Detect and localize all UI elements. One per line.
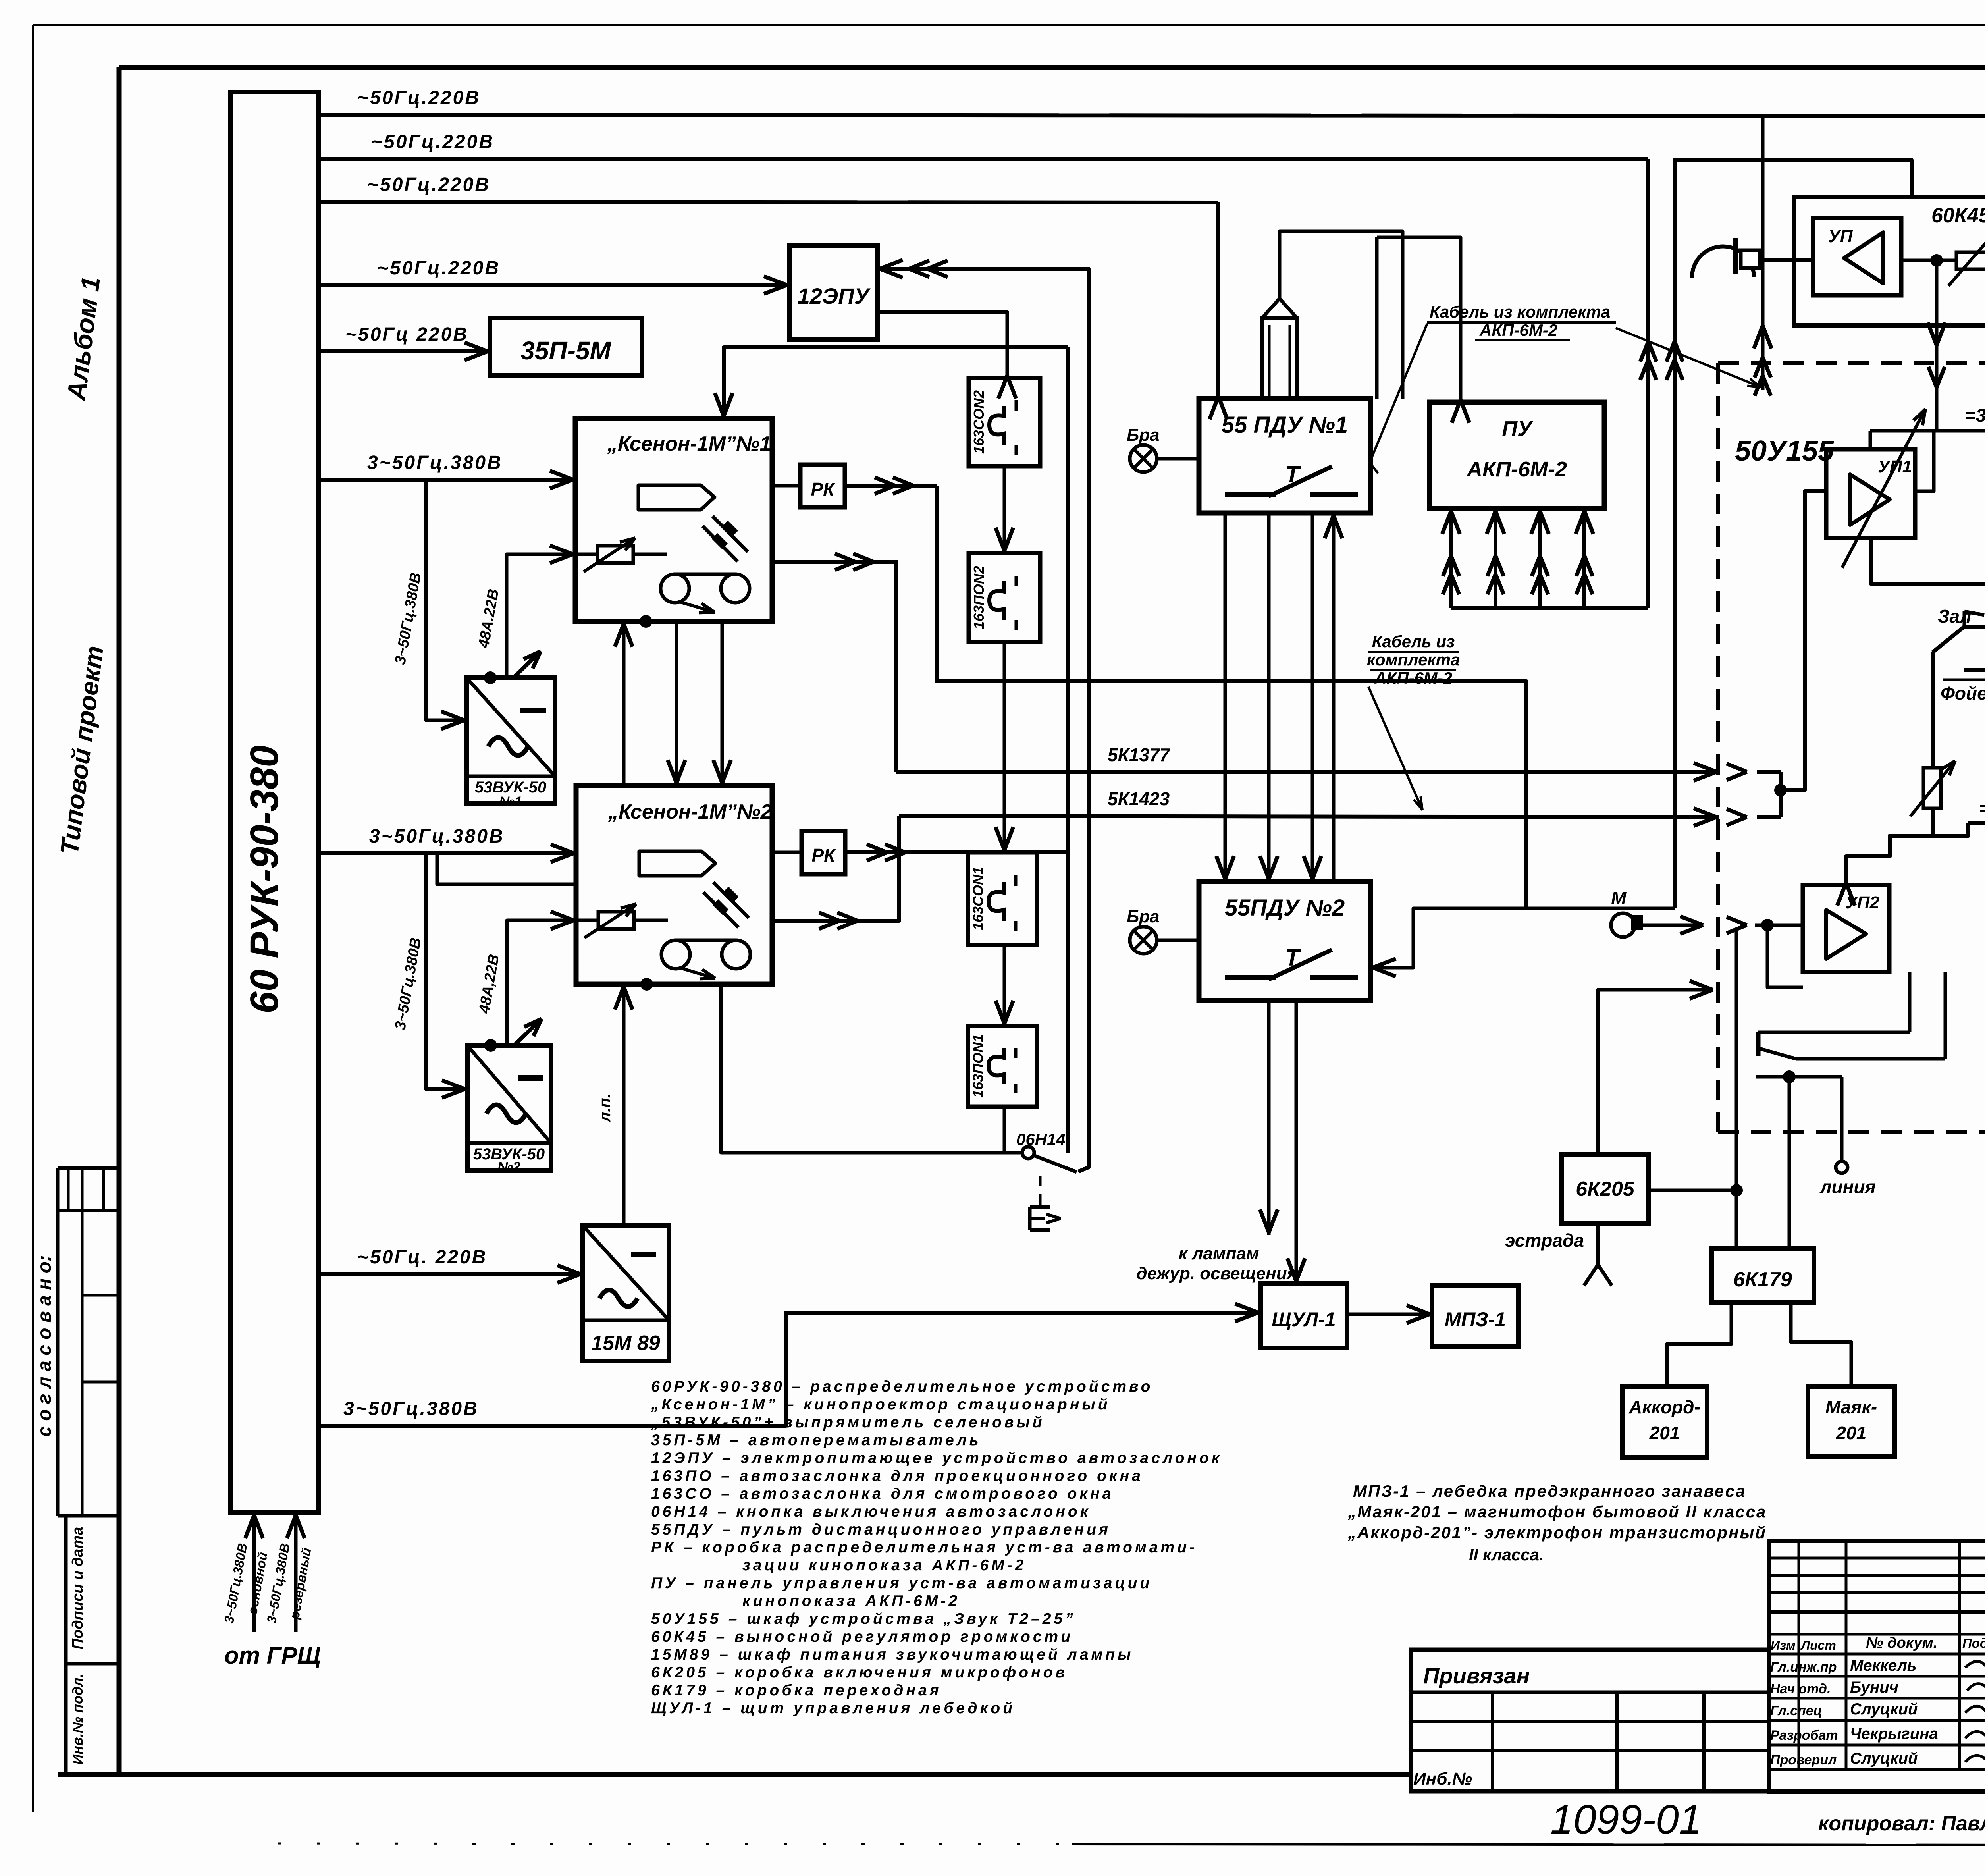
wire jumper 55ПДУ№1 to ПУ bbox=[1375, 237, 1379, 399]
svg-text:Привязан: Привязан bbox=[1423, 1663, 1530, 1688]
rectifier 53ВУК-50 №2 bbox=[467, 1045, 551, 1170]
gain arrow through УП1 bbox=[1842, 409, 1925, 568]
svg-text:л.п.: л.п. bbox=[596, 1093, 614, 1123]
svg-text:1099-01: 1099-01 bbox=[1550, 1797, 1702, 1843]
svg-text:50У155 – шкаф устройства „Звук: 50У155 – шкаф устройства „Звук Т2–25” bbox=[651, 1610, 1076, 1627]
svg-text:Кабель из: Кабель из bbox=[1372, 632, 1455, 651]
wire ПУ cable bus bbox=[1451, 606, 1648, 610]
svg-text:ЩУЛ-1 – щит управления лебедк: ЩУЛ-1 – щит управления лебедкой bbox=[651, 1700, 1015, 1717]
svg-text:Нач отд.: Нач отд. bbox=[1770, 1681, 1831, 1697]
svg-text:3~50Гц.380В: 3~50Гц.380В bbox=[369, 826, 505, 847]
control panel ПУ АКП-6М-2 bbox=[1430, 402, 1604, 509]
wire ПУ pin 3 bbox=[1538, 509, 1542, 608]
wire №1 bottom to №2 top a bbox=[675, 621, 678, 785]
svg-text:ЩУЛ-1: ЩУЛ-1 bbox=[1272, 1308, 1336, 1330]
preamp УП1 bbox=[1826, 449, 1915, 538]
wire feeder2 riser down to ПУ cable bus bbox=[1646, 159, 1650, 608]
svg-text:~50Гц.220В: ~50Гц.220В bbox=[377, 258, 500, 279]
svg-text:15М89 – шкаф питания звукочита: 15М89 – шкаф питания звукочитающей лампы bbox=[651, 1646, 1134, 1663]
svg-text:комплекта: комплекта bbox=[1367, 650, 1460, 669]
sound reader symbol bbox=[1692, 247, 1754, 278]
svg-text:Бра: Бра bbox=[1127, 907, 1160, 926]
svg-text:5К1377: 5К1377 bbox=[1108, 744, 1171, 765]
svg-text:163ПОN1: 163ПОN1 bbox=[970, 1034, 986, 1098]
wire feeder3 drop into 55ПДУ№1 bbox=[1216, 202, 1220, 399]
wire 4th pin up into №1 bbox=[1332, 513, 1336, 881]
wire feeder9 3~50Гц.380В to ЩУЛ-1 bbox=[319, 1313, 1260, 1426]
wire feeder3 ~50Гц.220В (to 55ПДУ№1) bbox=[319, 202, 1218, 202]
wire ЩУЛ-1 to МПЗ-1 bbox=[1347, 1313, 1432, 1316]
svg-text:12ЭПУ: 12ЭПУ bbox=[798, 283, 871, 308]
film gate symbol bbox=[713, 516, 748, 552]
svg-text:М: М bbox=[1611, 888, 1627, 908]
wire =36В rail 2 bbox=[1968, 821, 1985, 825]
svg-text:Меккель: Меккель bbox=[1850, 1657, 1916, 1674]
svg-text:№1: №1 bbox=[499, 794, 522, 809]
svg-text:Бра: Бра bbox=[1127, 425, 1160, 445]
attachment box Привязан bbox=[1411, 1650, 1769, 1791]
svg-text:Бунич: Бунич bbox=[1850, 1679, 1898, 1696]
wire rail to УП1 top bbox=[1869, 431, 1872, 449]
film gate symbol №2 bbox=[713, 882, 749, 918]
variable resistor symbol №2 bbox=[598, 912, 634, 929]
svg-text:Слуцкий: Слуцкий bbox=[1850, 1750, 1918, 1767]
wire 3~50Гц.380В tap to 53ВУК№2 bbox=[426, 853, 467, 1089]
svg-text:3~50Гц.380В: 3~50Гц.380В bbox=[367, 452, 503, 473]
projector lamp symbol bbox=[638, 485, 715, 510]
svg-text:УП2: УП2 bbox=[1845, 893, 1879, 912]
distribution unit 60РУК-90-380 bbox=[230, 92, 319, 1513]
svg-text:201: 201 bbox=[1649, 1423, 1680, 1443]
lamp Бра №1 bbox=[1130, 445, 1157, 472]
wire УП audio down into 50У155 bbox=[1935, 260, 1939, 431]
wire 6К179 to Аккорд-201 bbox=[1667, 1303, 1731, 1387]
svg-text:Зал: Зал bbox=[1938, 606, 1971, 627]
svg-text:~50Гц. 220В: ~50Гц. 220В bbox=[357, 1247, 487, 1268]
svg-text:15М 89: 15М 89 bbox=[591, 1332, 660, 1355]
svg-text:Проверил: Проверил bbox=[1770, 1753, 1837, 1768]
svg-text:Кабель из комплекта: Кабель из комплекта bbox=[1430, 303, 1610, 321]
svg-text:РК: РК bbox=[812, 845, 836, 866]
wire УП output junction bbox=[1901, 259, 1956, 262]
junction dot on №2 bottom bbox=[640, 978, 653, 991]
svg-text:к лампам: к лампам bbox=[1179, 1244, 1259, 1263]
shutter 163ПОН2 bbox=[969, 553, 1040, 642]
preamp УП bbox=[1813, 218, 1901, 295]
wire from ГРЩ main feed (основной) bbox=[252, 1513, 256, 1632]
Зал contact stub bbox=[1964, 625, 1985, 629]
svg-text:163СОN2: 163СОN2 bbox=[971, 390, 987, 454]
svg-text:6К179 – коробка переходная: 6К179 – коробка переходная bbox=[651, 1682, 942, 1699]
svg-text:=36В: =36В bbox=[1979, 798, 1985, 819]
svg-text:II класса.: II класса. bbox=[1469, 1545, 1544, 1564]
faint dotted remnant of bottom border bbox=[278, 1843, 1072, 1844]
wire jumper into ПУ top bbox=[1377, 237, 1461, 402]
svg-text:ПУ – панель управления уст-ва: ПУ – панель управления уст-ва автоматиза… bbox=[651, 1575, 1152, 1592]
wire 12ЭПУ output down to shutters 163СОН2 bbox=[877, 312, 1007, 378]
svg-text:60РУК-90-380 – распределительн: 60РУК-90-380 – распределительное устройс… bbox=[651, 1378, 1153, 1395]
block Маяк-201 bbox=[1808, 1387, 1894, 1456]
svg-text:„Ксенон-1М” – кинопроектор с: „Ксенон-1М” – кинопроектор стационарный bbox=[651, 1396, 1110, 1413]
svg-text:163СОN1: 163СОN1 bbox=[970, 867, 986, 930]
input selector switch bbox=[1756, 1032, 1761, 1056]
wire 12ЭПУ return from 06Н14 bbox=[877, 269, 1089, 1172]
wire 5К join bracket into УП1 bbox=[1779, 772, 1783, 817]
preamp УП2 bbox=[1803, 885, 1889, 972]
shutter 163СОН1 bbox=[968, 852, 1037, 945]
selector blade bbox=[1933, 627, 1964, 652]
svg-text:~50Гц.220В: ~50Гц.220В bbox=[367, 174, 490, 195]
wire =36В rail bbox=[1870, 429, 1985, 433]
wire riser up to №1 crossover and down to 06Н14 bbox=[1066, 347, 1070, 1153]
svg-text:№ докум.: № докум. bbox=[1866, 1635, 1937, 1651]
wire УП1 output to selector column bbox=[1871, 538, 1985, 584]
svg-text:3~50Гц.380В: 3~50Гц.380В bbox=[343, 1398, 479, 1419]
wire mast jumper over to box top bbox=[1280, 231, 1403, 399]
svg-text:МПЗ-1 – лебедка предэкранного: МПЗ-1 – лебедка предэкранного занавеса bbox=[1353, 1482, 1746, 1500]
wire 55ПДУ№2 bottom pin to ЩУЛ-1 bbox=[1295, 1001, 1298, 1284]
wire 48А.22В output of 53ВУК№1 to №1 resistor input bbox=[507, 554, 575, 678]
svg-text:06Н14: 06Н14 bbox=[1016, 1130, 1066, 1149]
wire ПУ pin 2 bbox=[1494, 509, 1497, 608]
wire М line down to input switch bbox=[1767, 925, 1803, 987]
wire №1 lower output to 5К1377 bbox=[772, 562, 896, 772]
remote control desk 55ПДУ№2 bbox=[1199, 881, 1370, 1001]
wire 48А.22В output of 53ВУК№2 to №2 resistor input bbox=[507, 920, 576, 1045]
winch МПЗ-1 bbox=[1432, 1285, 1519, 1347]
svg-text:Изм: Изм bbox=[1771, 1638, 1796, 1652]
wire feeder6 3~50Гц.380В to Ксенон-1М №1 bbox=[319, 478, 575, 482]
wire №2 to РК2 bbox=[772, 851, 802, 854]
block Ксенон-1М №1 film projector bbox=[575, 418, 772, 621]
wire mix column a down to 6К179 bbox=[1735, 931, 1738, 1248]
svg-text:=36В: =36В bbox=[1965, 405, 1985, 426]
svg-text:201: 201 bbox=[1836, 1423, 1867, 1443]
wire №1 to РК1 bbox=[772, 484, 800, 488]
svg-text:эстрада: эстрада bbox=[1505, 1230, 1584, 1251]
svg-text:06Н14 – кнопка выключения авто: 06Н14 – кнопка выключения автозаслонок bbox=[651, 1503, 1091, 1520]
wire л.п. from 15МВ9 into №2 bottom bbox=[622, 984, 626, 1226]
svg-text:ПУ: ПУ bbox=[1502, 417, 1533, 441]
input arrows into №1 left bbox=[550, 471, 573, 480]
film reels symbol bbox=[661, 574, 689, 603]
svg-text:Лист: Лист bbox=[1800, 1638, 1836, 1652]
svg-text:УП: УП bbox=[1828, 227, 1853, 246]
svg-text:„53ВУК-50”+ выпрямитель селено: „53ВУК-50”+ выпрямитель селеновый bbox=[651, 1414, 1045, 1431]
svg-text:6К205: 6К205 bbox=[1576, 1178, 1635, 1201]
wire ПОН1 down to 06Н14 bbox=[1003, 1107, 1006, 1151]
junction dot on №1 bottom bbox=[640, 615, 652, 628]
wire РК2 output east to riser bbox=[845, 850, 1068, 854]
wire №1 bottom down through №2 top b bbox=[721, 621, 724, 785]
microphone box 6К205 bbox=[1561, 1154, 1649, 1223]
svg-text:60К45 – выносной регулятор гро: 60К45 – выносной регулятор громкости bbox=[651, 1628, 1073, 1645]
svg-text:Т: Т bbox=[1285, 461, 1301, 488]
svg-text:Подписи и дата: Подписи и дата bbox=[69, 1527, 86, 1650]
sheet outer thin border bbox=[33, 24, 1985, 26]
Фойе branch through variable resistor bbox=[1931, 652, 1935, 768]
signatures squiggles bbox=[1965, 1661, 1985, 1668]
svg-text:5К1423: 5К1423 bbox=[1108, 789, 1170, 809]
box РК №1 distribution box bbox=[800, 465, 845, 507]
wire feeder4 ~50Гц.220В to 12ЭПУ bbox=[319, 283, 789, 287]
remote control desk 55ПДУ№1 bbox=[1199, 399, 1370, 513]
wire mix column b (линия) down to 6К179 bbox=[1788, 1077, 1791, 1248]
svg-text:55 ПДУ №1: 55 ПДУ №1 bbox=[1222, 412, 1348, 438]
svg-text:с о г л а с о в а н о:: с о г л а с о в а н о: bbox=[34, 1255, 55, 1437]
wire 6К205 up into 50У155 bbox=[1598, 990, 1713, 1154]
wire 3~50Гц.380В tap to 53ВУК№1 bbox=[426, 480, 466, 720]
svg-text:6К179: 6К179 bbox=[1733, 1268, 1792, 1291]
svg-text:Инб.№: Инб.№ bbox=[1413, 1769, 1472, 1789]
junction dot on 53ВУК№2 top bbox=[484, 1039, 497, 1052]
svg-text:„Аккорд-201”- электрофон транз: „Аккорд-201”- электрофон транзисторный bbox=[1347, 1523, 1767, 1542]
svg-text:163ПОN2: 163ПОN2 bbox=[971, 566, 987, 629]
wire 5К1377 bbox=[896, 770, 1719, 774]
left margin column cells bbox=[56, 1168, 60, 1516]
variable resistor in 60К45 bbox=[1956, 252, 1985, 269]
wire СОН1 to ПОН1 bbox=[1003, 945, 1006, 1026]
wire ПОН2 down to СОН1 bbox=[1003, 642, 1006, 852]
wire РК1 output to 5К route bbox=[845, 484, 937, 488]
wire ПУ pin 4 bbox=[1582, 509, 1586, 608]
film reels symbol №2 bbox=[661, 940, 690, 969]
svg-text:Гл.инж.пр: Гл.инж.пр bbox=[1770, 1660, 1837, 1675]
wire feeder7 3~50Гц.380В to Ксенон-1М №2 bbox=[319, 851, 576, 855]
mast symbol on 55ПДУ№1 bbox=[1262, 318, 1297, 399]
svg-text:Фойе: Фойе bbox=[1941, 683, 1985, 704]
block 15М В9 sound lamp power cabinet bbox=[583, 1226, 669, 1361]
wire ПУ pin 1 bbox=[1449, 509, 1453, 608]
wire 6К205 stage mic stub bbox=[1596, 1223, 1600, 1265]
svg-text:Т: Т bbox=[1285, 944, 1301, 971]
rectifier 53ВУК-50 №1 bbox=[466, 678, 555, 803]
junction dot on 53ВУК№1 top bbox=[484, 671, 497, 684]
svg-text:„Ксенон-1М”№2: „Ксенон-1М”№2 bbox=[608, 800, 772, 823]
wire 5К1423 bbox=[899, 816, 1719, 817]
Фойе contact stub bbox=[1964, 668, 1985, 672]
block 12ЭПУ power unit for shutters bbox=[789, 246, 877, 339]
svg-text:„Маяк-201 – магнитофон бытовой: „Маяк-201 – магнитофон бытовой II класса bbox=[1347, 1502, 1767, 1521]
cabinet 50У155 dashed boundary bbox=[1718, 361, 1985, 365]
wire №2 top to №1 bottom (лампа цепь) bbox=[622, 621, 626, 785]
wire 55ПДУ№1 bottom pins down to №2 bbox=[1224, 513, 1227, 881]
manual actuator symbol Е bbox=[1028, 1207, 1032, 1230]
svg-text:35П-5М: 35П-5М bbox=[520, 336, 611, 365]
svg-text:МПЗ-1: МПЗ-1 bbox=[1445, 1308, 1506, 1330]
svg-text:~50Гц 220В: ~50Гц 220В bbox=[345, 324, 468, 345]
block 35П-5М autorewinder bbox=[490, 318, 642, 375]
Т-switch symbol inside bbox=[1225, 492, 1276, 497]
svg-text:копировал: Павлова.: копировал: Павлова. bbox=[1818, 1812, 1985, 1835]
svg-text:линия: линия bbox=[1819, 1176, 1876, 1197]
main drawing frame bbox=[119, 65, 1985, 70]
wire М to УП2 bbox=[1641, 924, 1703, 927]
svg-text:Аккорд-: Аккорд- bbox=[1628, 1397, 1700, 1417]
margin cell Подписи и дата bbox=[64, 1516, 68, 1664]
svg-text:Слуцкий: Слуцкий bbox=[1850, 1701, 1918, 1718]
svg-text:Маяк-: Маяк- bbox=[1825, 1397, 1877, 1417]
box РК №2 distribution box bbox=[802, 831, 845, 874]
lamp Бра №2 bbox=[1130, 927, 1157, 954]
wire 60К45 line down to 55ПДУ№2 loop bbox=[1675, 160, 1912, 908]
shutter 163СОН2 bbox=[969, 378, 1040, 466]
svg-text:РК: РК bbox=[811, 479, 836, 499]
shutter 163ПОН1 bbox=[968, 1026, 1037, 1107]
title block main box bbox=[1769, 1541, 1985, 1791]
margin cell Инв.№ подл. bbox=[64, 1664, 68, 1774]
revision table grid bbox=[1769, 1557, 1985, 1560]
wire cable riser from feeder1 bbox=[1761, 116, 1765, 390]
svg-text:№2: №2 bbox=[497, 1159, 520, 1174]
svg-text:~50Гц.220В: ~50Гц.220В bbox=[357, 87, 480, 108]
projector lamp symbol №2 bbox=[639, 851, 715, 876]
svg-text:53ВУК-50: 53ВУК-50 bbox=[475, 779, 546, 796]
wire №2 lower output to 5К1423 bbox=[772, 816, 899, 921]
svg-text:от ГРЩ: от ГРЩ bbox=[224, 1642, 321, 1669]
wire feeder2 ~50Гц.220В (to ПУ АКП-6М-2) bbox=[319, 157, 1648, 161]
wire 55ПДУ№2 right loop to 50У155 bbox=[1370, 908, 1675, 968]
wire from ГРЩ reserve feed (резервный) bbox=[294, 1513, 298, 1632]
svg-text:Разробат: Разробат bbox=[1770, 1728, 1838, 1743]
svg-text:~50Гц.220В: ~50Гц.220В bbox=[371, 131, 494, 152]
wire 6К205 output to mix columns bbox=[1649, 1189, 1736, 1192]
svg-text:35П-5М – автоперематыватель: 35П-5М – автоперематыватель bbox=[651, 1432, 981, 1449]
junction box 6К179 bbox=[1711, 1248, 1814, 1303]
svg-text:55ПДУ – пульт дистанционного у: 55ПДУ – пульт дистанционного управления bbox=[651, 1521, 1111, 1538]
svg-text:55ПДУ №2: 55ПДУ №2 bbox=[1225, 895, 1345, 921]
block Аккорд-201 bbox=[1623, 1387, 1707, 1457]
svg-text:50У155: 50У155 bbox=[1735, 435, 1834, 467]
wire second link into №2 left bbox=[437, 853, 576, 884]
wire feeder5 ~50Гц.220В to 35П-5М bbox=[319, 349, 490, 353]
winch panel ЩУЛ-1 bbox=[1260, 1284, 1347, 1348]
svg-text:60К45: 60К45 bbox=[1931, 204, 1985, 227]
block Ксенон-1М №2 film projector bbox=[576, 785, 772, 984]
svg-text:12ЭПУ – электропитающее устро: 12ЭПУ – электропитающее устройство автоз… bbox=[651, 1450, 1222, 1467]
svg-text:РК – коробка распределительная: РК – коробка распределительная уст-ва ав… bbox=[651, 1539, 1197, 1556]
volume regulator 60К45 bbox=[1794, 197, 1985, 326]
svg-text:Чекрыгина: Чекрыгина bbox=[1850, 1725, 1938, 1743]
wire №2 bottom to 06Н14 switch bbox=[721, 984, 1023, 1153]
svg-text:6К205 – коробка включения микр: 6К205 – коробка включения микрофонов bbox=[651, 1664, 1068, 1681]
svg-text:163ПО – автозаслонка для проек: 163ПО – автозаслонка для проекционного о… bbox=[651, 1467, 1143, 1485]
svg-text:кинопоказа АКП-6М-2: кинопоказа АКП-6М-2 bbox=[742, 1593, 960, 1610]
wire rail link down into УП1 right bbox=[1915, 431, 1934, 491]
Т-switch symbol inside №2 bbox=[1225, 975, 1276, 980]
svg-text:АКП-6М-2: АКП-6М-2 bbox=[1374, 669, 1452, 687]
svg-text:АКП-6М-2: АКП-6М-2 bbox=[1479, 321, 1557, 339]
wire РК1 route down and east (to №2 crossover) bbox=[937, 486, 1526, 908]
svg-text:Инв.№ подл.: Инв.№ подл. bbox=[69, 1674, 86, 1764]
wire линия horizontal bbox=[1756, 1075, 1842, 1079]
terminal линия bbox=[1840, 1077, 1844, 1161]
svg-text:Гл.спец: Гл.спец bbox=[1770, 1703, 1822, 1718]
wire feeder8 ~50Гц.220В to 15М В9 bbox=[319, 1272, 583, 1276]
svg-text:Подпись: Подпись bbox=[1962, 1636, 1985, 1650]
svg-text:„Ксенон-1М”№1: „Ксенон-1М”№1 bbox=[607, 432, 771, 455]
variable resistor symbol bbox=[597, 546, 633, 563]
svg-text:зации кинопоказа АКП-6М-2: зации кинопоказа АКП-6М-2 bbox=[742, 1557, 1026, 1574]
svg-text:дежур. освещения: дежур. освещения bbox=[1136, 1264, 1297, 1283]
wire 55ПДУ№2 bottom pin to lamps bbox=[1267, 1001, 1271, 1235]
svg-text:АКП-6М-2: АКП-6М-2 bbox=[1466, 457, 1567, 481]
wire СОН2 to ПОН2 bbox=[1003, 466, 1006, 553]
svg-text:163СО – автозаслонка для смотр: 163СО – автозаслонка для смотрового окна bbox=[651, 1485, 1114, 1502]
wire rail2 into УП2 top bbox=[1846, 836, 1933, 885]
svg-text:60 РУК-90-380: 60 РУК-90-380 bbox=[242, 745, 287, 1014]
wire feeder1 ~50Гц.220В (to УО1/УО2 supply far right) bbox=[319, 115, 1985, 116]
wire 6К179 to Маяк-201 bbox=[1791, 1303, 1851, 1387]
